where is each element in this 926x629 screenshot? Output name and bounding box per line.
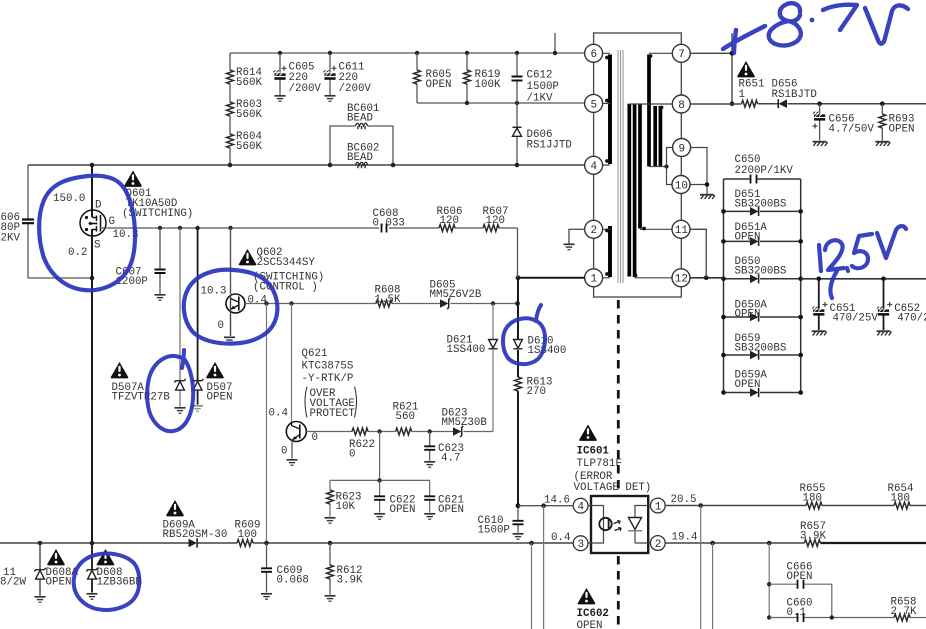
node dots top rail xyxy=(278,51,557,55)
wire stub above pin6 node xyxy=(554,33,556,53)
resistor R693 xyxy=(875,104,914,146)
resistor R606 xyxy=(437,206,463,231)
capacitor C623 xyxy=(424,432,464,468)
svg-text:1: 1 xyxy=(655,501,662,513)
svg-text:6: 6 xyxy=(591,49,598,61)
svg-text:1SS400: 1SS400 xyxy=(528,345,567,357)
12.5V rail wires xyxy=(690,278,926,279)
svg-text:-Y-RTK/P: -Y-RTK/P xyxy=(302,373,354,385)
primary winding bar (pins 2-1) xyxy=(608,226,612,277)
wire pin1 left (black) xyxy=(518,277,585,279)
svg-text:G: G xyxy=(109,216,115,228)
svg-text:0.033: 0.033 xyxy=(373,218,405,230)
diode D659A xyxy=(721,370,803,398)
secondary winding bars xyxy=(627,104,631,277)
wire pin1 rail y505.5 xyxy=(665,505,926,507)
svg-text:270: 270 xyxy=(527,386,546,398)
diode D621 xyxy=(447,335,498,357)
svg-text:1: 1 xyxy=(739,89,745,101)
wire Q601 source black vertical xyxy=(91,236,93,544)
svg-text:3: 3 xyxy=(578,539,585,551)
svg-text:1500P: 1500P xyxy=(527,81,559,93)
svg-text:TFZVTR27B: TFZVTR27B xyxy=(112,392,171,404)
resistor R657 xyxy=(800,521,826,546)
svg-text:3.9K: 3.9K xyxy=(337,575,363,587)
pin 9 xyxy=(673,139,691,157)
resistor R604 xyxy=(227,131,263,165)
svg-text:4: 4 xyxy=(591,161,598,173)
svg-text:8/2W: 8/2W xyxy=(0,577,26,589)
capacitor C606 (left edge) xyxy=(1,165,35,278)
svg-text:0: 0 xyxy=(349,449,355,461)
pin 11 xyxy=(672,220,690,238)
pin9/10 right loop to ground xyxy=(691,148,708,195)
blue ink: circle around D608 xyxy=(74,554,140,610)
svg-text:TLP781F: TLP781F xyxy=(577,458,622,470)
svg-text:0.4: 0.4 xyxy=(551,532,570,544)
svg-text:0: 0 xyxy=(281,446,287,458)
svg-text:100: 100 xyxy=(238,529,257,541)
resistor R609 xyxy=(235,520,261,547)
svg-text:11: 11 xyxy=(675,225,689,237)
capacitor C605 xyxy=(273,53,322,101)
svg-text:2: 2 xyxy=(591,225,598,237)
svg-text:4: 4 xyxy=(578,502,585,514)
pin 5 xyxy=(585,94,603,112)
diode D650A xyxy=(721,300,803,322)
pin 7 xyxy=(672,44,690,62)
svg-text:560K: 560K xyxy=(236,77,262,89)
svg-text:SB3200BS: SB3200BS xyxy=(735,266,787,278)
pin 6 xyxy=(585,44,603,62)
wire x493 D621 branch xyxy=(492,304,494,432)
svg-text:/1KV: /1KV xyxy=(527,93,553,105)
wire x531.5 down xyxy=(531,543,533,629)
svg-text:OPEN: OPEN xyxy=(46,577,72,589)
blue ink: circle around Q601 xyxy=(39,176,135,291)
isolation dashed line xyxy=(617,300,620,629)
transistor Q621 xyxy=(286,348,356,465)
svg-text:KTC3875S: KTC3875S xyxy=(302,361,354,373)
diode D656 xyxy=(772,79,817,109)
svg-text:560K: 560K xyxy=(236,141,262,153)
wire x712.6 down xyxy=(712,543,714,629)
wire pin7 right with stub xyxy=(690,33,732,104)
svg-text:4.7: 4.7 xyxy=(441,453,460,465)
svg-text:1500P: 1500P xyxy=(478,525,510,537)
capacitor C656 xyxy=(813,104,875,146)
zener D605 xyxy=(430,280,482,310)
pin 1 xyxy=(585,269,603,287)
svg-text:OPEN: OPEN xyxy=(577,620,603,629)
capacitor C622 xyxy=(374,480,415,519)
resistor R658 xyxy=(891,597,926,621)
diode D651 xyxy=(721,189,803,216)
svg-text:560K: 560K xyxy=(236,109,262,121)
svg-text:0.4: 0.4 xyxy=(269,408,288,420)
ferrite bead BC602 (on rail) xyxy=(347,143,379,169)
svg-text:BEAD: BEAD xyxy=(347,152,373,164)
svg-text:D: D xyxy=(95,200,101,212)
svg-text:SB3200BS: SB3200BS xyxy=(735,343,787,355)
svg-text:Q621: Q621 xyxy=(302,348,328,360)
wire top rail (C605/C611/R605 node) xyxy=(230,52,585,54)
resistor R605 xyxy=(414,53,452,103)
pin 8 xyxy=(672,95,690,113)
svg-text:10K: 10K xyxy=(336,501,356,513)
wire pin11 to 12.5V rail xyxy=(690,229,706,277)
svg-text:OPEN: OPEN xyxy=(735,309,761,321)
wire x291.5 Q621 collector xyxy=(291,304,293,423)
base rail y303.5 xyxy=(245,303,518,305)
svg-text:10.3: 10.3 xyxy=(201,286,227,298)
svg-text:0.2: 0.2 xyxy=(68,247,87,259)
IC602 label xyxy=(577,588,609,629)
resistor R651 xyxy=(737,61,764,107)
pin 4 xyxy=(585,156,603,174)
svg-text:MM5Z30B: MM5Z30B xyxy=(442,417,488,429)
wire x769.2 down xyxy=(768,543,770,618)
ground rail y543 xyxy=(0,542,573,544)
resistor R613 xyxy=(515,377,553,399)
ferrite bead BC601 (box top path) xyxy=(330,103,393,165)
capacitor C621 xyxy=(424,480,464,519)
svg-text:MM5Z6V2B: MM5Z6V2B xyxy=(430,289,482,301)
blue ink: circle around Q602 xyxy=(184,270,278,344)
rectifier ladder rails xyxy=(724,179,801,393)
diode D659 xyxy=(721,333,803,360)
blue ink: 12.5V annotation xyxy=(819,226,906,298)
svg-text:0.068: 0.068 xyxy=(277,575,309,587)
resistor R611 (cut off at left) xyxy=(0,567,26,589)
resistor R612 xyxy=(325,543,363,601)
main B+ rail y165 xyxy=(28,164,585,166)
svg-text:(CONTROL ): (CONTROL ) xyxy=(253,282,318,294)
svg-text:470/25V: 470/25V xyxy=(897,313,926,325)
svg-text:0.1: 0.1 xyxy=(787,607,806,619)
wire x266.5 down xyxy=(266,304,268,544)
svg-text:OPEN: OPEN xyxy=(207,392,233,404)
svg-text:1.5K: 1.5K xyxy=(375,294,401,306)
capacitor C609 xyxy=(261,543,309,599)
svg-text:19.4: 19.4 xyxy=(672,532,698,544)
svg-text:20.5: 20.5 xyxy=(671,494,697,506)
resistor R614 xyxy=(227,53,263,102)
diode D650 (on 12.5V rail) xyxy=(721,256,803,283)
resistor R621 xyxy=(393,402,419,435)
svg-text:14.6: 14.6 xyxy=(544,495,570,507)
svg-text:OPEN: OPEN xyxy=(426,79,452,91)
svg-text:4.7/50V: 4.7/50V xyxy=(829,124,875,136)
svg-text:BEAD: BEAD xyxy=(347,113,373,125)
svg-text:S: S xyxy=(94,240,100,252)
pin 12 xyxy=(672,269,690,287)
svg-text:0: 0 xyxy=(218,320,224,332)
svg-text:C612: C612 xyxy=(527,70,553,82)
svg-text:OPEN: OPEN xyxy=(735,379,761,391)
winding tap to pins 9/10 bracket xyxy=(649,166,667,168)
wire R622 node down xyxy=(379,432,381,481)
resistor R655 xyxy=(800,483,826,509)
mosfet Q601 xyxy=(80,165,193,252)
svg-text:2: 2 xyxy=(655,539,662,551)
svg-text:2.7K: 2.7K xyxy=(891,606,917,618)
blue ink: 8.7V annotation xyxy=(723,3,908,53)
winding taps to pins 7/8/11/12 xyxy=(649,52,672,54)
svg-text:8: 8 xyxy=(678,100,685,112)
svg-text:2SC5344SY: 2SC5344SY xyxy=(257,257,316,269)
capacitor C666 xyxy=(769,562,832,618)
svg-text:/200V: /200V xyxy=(339,83,372,95)
wire pin2 to ground xyxy=(569,229,585,243)
svg-text:150.0: 150.0 xyxy=(53,193,85,205)
svg-text:OPEN: OPEN xyxy=(438,504,464,516)
svg-text:IC601: IC601 xyxy=(577,446,610,458)
transformer T601 body xyxy=(594,33,682,297)
resistor R654 xyxy=(888,483,914,509)
svg-text:10: 10 xyxy=(675,180,688,192)
svg-text:PROTECT: PROTECT xyxy=(310,408,356,420)
svg-text:0: 0 xyxy=(312,432,318,444)
svg-text:1: 1 xyxy=(591,274,598,286)
wire pin4 of IC601 xyxy=(518,505,573,507)
resistor R603 xyxy=(227,99,263,134)
pin 10 xyxy=(672,176,690,194)
capacitor C612 xyxy=(512,53,559,105)
diode D610 xyxy=(514,336,567,358)
svg-text:OPEN: OPEN xyxy=(390,504,416,516)
wire pin2 rail y543 xyxy=(665,542,804,544)
svg-text:IC602: IC602 xyxy=(577,608,609,620)
svg-text:7: 7 xyxy=(678,49,685,61)
zener D507 xyxy=(192,228,233,411)
svg-text:9: 9 xyxy=(679,143,686,155)
resistor R623 xyxy=(325,480,362,523)
resistor R607 xyxy=(483,206,509,231)
pin 2 xyxy=(585,220,603,238)
capacitor C652 xyxy=(877,279,926,336)
capacitor C607 xyxy=(116,228,166,300)
svg-text:120: 120 xyxy=(440,215,459,227)
svg-text:2200P/1KV: 2200P/1KV xyxy=(735,165,794,177)
blue ink: circle around D610 xyxy=(503,305,545,364)
svg-text:470/25V: 470/25V xyxy=(833,313,879,325)
svg-text:120: 120 xyxy=(486,215,505,227)
capacitor C611 xyxy=(323,53,371,101)
resistor R622 xyxy=(349,428,375,460)
transistor Q602 xyxy=(224,228,324,343)
gate rail y228 xyxy=(100,227,518,229)
svg-text:RS1BJTD: RS1BJTD xyxy=(772,89,817,101)
svg-text:1SS400: 1SS400 xyxy=(447,344,486,356)
svg-text:180: 180 xyxy=(803,493,822,505)
capacitor C608 xyxy=(373,208,405,233)
svg-text:1ZB36BB: 1ZB36BB xyxy=(97,577,143,589)
opto IC601 xyxy=(573,425,665,554)
svg-text:180: 180 xyxy=(891,493,910,505)
svg-text:OPEN: OPEN xyxy=(889,124,915,136)
svg-text:SB3200BS: SB3200BS xyxy=(735,199,787,211)
capacitor C660 xyxy=(769,598,894,623)
svg-text:OPEN: OPEN xyxy=(735,232,761,244)
transformer core xyxy=(618,50,623,283)
8.7V rail y103.7 xyxy=(690,103,926,105)
wire x700.7 down xyxy=(700,506,702,629)
svg-text:OPEN: OPEN xyxy=(787,571,813,583)
blue ink: circle around D507A xyxy=(147,350,193,431)
svg-text:RB520SM-30: RB520SM-30 xyxy=(163,529,228,541)
resistor R608 xyxy=(375,285,401,307)
svg-text:2KV: 2KV xyxy=(1,233,21,245)
wire bottom of C606 loop xyxy=(28,277,92,279)
zener D623 xyxy=(442,408,488,438)
wire pin1 to D610 black vertical xyxy=(517,278,519,506)
svg-text:RS1JJTD: RS1JJTD xyxy=(527,140,572,152)
svg-text:/200V: /200V xyxy=(289,83,322,95)
capacitor C650 xyxy=(724,154,801,184)
wire R605/R619/C612 to pin5 xyxy=(417,102,585,104)
zener D608 xyxy=(86,543,142,599)
zener D608A xyxy=(34,543,78,602)
svg-text:100K: 100K xyxy=(475,79,501,91)
diode D651A xyxy=(721,222,803,246)
OVP rail y431.5 xyxy=(306,431,493,433)
wire R607 corner down to pin1 net xyxy=(517,228,519,278)
svg-text:5: 5 xyxy=(591,99,598,111)
sub rail y480.4 xyxy=(330,479,430,481)
svg-text:12: 12 xyxy=(675,274,688,286)
svg-text:3.9K: 3.9K xyxy=(800,531,826,543)
svg-text:560: 560 xyxy=(396,411,415,423)
resistor R619 xyxy=(464,53,501,103)
svg-text:VOLTAGE DET): VOLTAGE DET) xyxy=(574,482,652,494)
capacitor C610 xyxy=(478,506,524,540)
diode D609A xyxy=(163,500,228,548)
wire x543.6 down xyxy=(543,506,545,629)
capacitor C651 xyxy=(812,279,879,336)
primary winding bar (pins 6-5-4) xyxy=(608,55,612,165)
svg-text:0.4: 0.4 xyxy=(248,295,267,307)
diode D606 xyxy=(513,103,572,165)
zener D507A xyxy=(111,228,186,413)
